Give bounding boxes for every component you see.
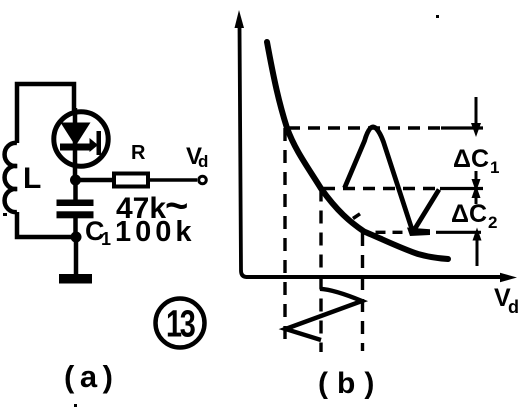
small arrow tick on curve (353, 214, 360, 219)
node A (diode / R / C1 junction) (70, 175, 81, 186)
svg-text:L: L (23, 162, 41, 195)
svg-text:d: d (198, 152, 208, 171)
wire left-bottom (inductor bottom to ground node) (17, 212, 76, 237)
svg-text:1: 1 (101, 229, 111, 249)
dashed horizontal line bottom (376, 231, 405, 234)
x-axis arrowhead (500, 273, 517, 282)
wire resistor to terminal (148, 178, 197, 182)
triangle sweep waveform (b) (286, 289, 363, 340)
capacitor C1 plate 1 (57, 200, 94, 207)
tick line bottom right (436, 231, 481, 234)
wire node B to ground (74, 237, 79, 275)
varactor cathode bar (60, 144, 90, 151)
vertical dashed line 1 (283, 128, 286, 348)
svg-text:(a): (a) (64, 359, 118, 394)
vertical dashed line 2 (319, 189, 322, 353)
svg-text:100k: 100k (115, 216, 196, 248)
speck bottom left (74, 404, 77, 407)
wire through diode (73, 108, 78, 180)
tick line middle right (440, 187, 483, 190)
wire node A to capacitor (73, 180, 78, 200)
speck top right (436, 15, 439, 18)
figure number 13 circle (156, 299, 205, 348)
dimension arrow top (down to C max line) (475, 97, 478, 126)
resistor R body (114, 174, 148, 187)
svg-text:R: R (131, 142, 146, 164)
svg-text:d: d (508, 297, 519, 317)
dimension arrow bottom (up to bottom line) (473, 228, 482, 241)
wire capacitor to ground node (73, 218, 78, 237)
svg-text:13: 13 (166, 303, 195, 346)
node B (ground junction) (71, 232, 82, 243)
y-axis arrowhead (235, 10, 245, 28)
inductor L (5, 143, 17, 212)
wire top-left loop (from inductor top to diode top) (17, 84, 74, 143)
dashed horizontal line middle (323, 187, 440, 190)
vertical dashed line 3 (361, 233, 364, 351)
varactor capacitor plate mark (90, 138, 99, 152)
dashed horizontal line top (C max) (288, 126, 441, 129)
varactor diode triangle (61, 123, 91, 147)
tick line top right (441, 126, 483, 129)
svg-text:1: 1 (490, 158, 499, 177)
ground (59, 274, 92, 284)
C-V curve (267, 42, 448, 259)
x-axis (246, 275, 503, 279)
sine wave on curve (407, 228, 430, 237)
svg-text:ΔC: ΔC (453, 145, 489, 173)
svg-text:(b): (b) (318, 367, 383, 400)
svg-text:2: 2 (488, 213, 497, 232)
speck left margin (3, 213, 7, 216)
terminal Vd (open circle) (199, 176, 207, 184)
y-axis (240, 25, 248, 277)
varactor diode D1 circle (54, 112, 108, 166)
wire node A to resistor (75, 178, 114, 183)
svg-text:ΔC: ΔC (451, 200, 487, 228)
capacitor C1 plate 2 (57, 211, 94, 218)
dimension double arrow middle (475, 171, 478, 180)
